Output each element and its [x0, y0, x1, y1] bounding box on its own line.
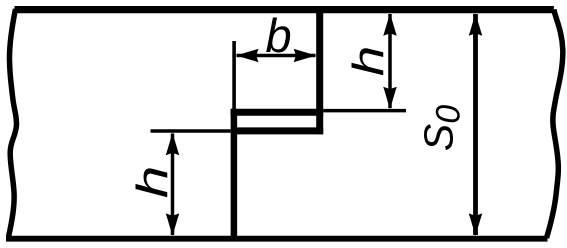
svg-text:S0: S0 — [416, 105, 468, 151]
plate top surface line — [15, 6, 554, 13]
arrowhead S0 up — [469, 13, 483, 36]
arrowhead h bottom down — [166, 213, 180, 236]
extension line for h top right (horizontal) — [323, 109, 406, 113]
arrowhead b right — [294, 49, 317, 63]
lap joint top line — [231, 109, 324, 116]
arrowhead S0 down — [469, 213, 483, 236]
lower sheet edge (vertical) — [231, 109, 238, 242]
svg-text:b: b — [266, 9, 292, 62]
dimension line h bottom — [171, 134, 175, 236]
svg-text:h: h — [343, 46, 393, 76]
right break line — [547, 10, 563, 239]
left break line — [9, 9, 17, 237]
extension line for b (vertical) — [232, 41, 236, 110]
arrowhead b left — [236, 49, 259, 63]
arrowhead h top up — [383, 13, 397, 36]
extension line for h bottom left (horizontal) — [151, 129, 231, 133]
dimension line h top — [388, 14, 392, 108]
svg-text:h: h — [127, 166, 176, 199]
dimension line b — [237, 54, 316, 58]
arrowhead h bottom up — [166, 133, 180, 156]
plate bottom surface line — [6, 236, 548, 242]
arrowhead h top down — [383, 87, 397, 110]
dimension line S0 — [473, 14, 478, 235]
upper sheet edge (vertical) — [316, 7, 323, 135]
lap joint bottom line — [237, 127, 323, 134]
